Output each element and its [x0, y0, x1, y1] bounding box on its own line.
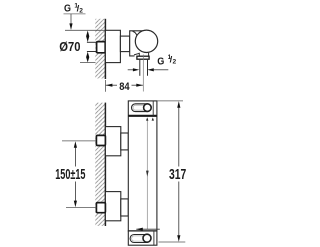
150 dim line lower seg	[74, 182, 76, 205]
bottom cap inner vertical line	[153, 231, 155, 245]
O70 dim double-arrow lower	[86, 52, 89, 63]
upper union nut	[96, 135, 105, 145]
knob circle (top view)	[135, 30, 157, 52]
union nut (top view)	[97, 42, 106, 53]
dim ext line bottom (O70)	[80, 62, 96, 64]
dim ext line top (O70)	[65, 29, 105, 31]
bottom pill inner line	[132, 236, 145, 241]
wall hatching (top view)	[95, 19, 105, 79]
G1/2 callout left tail	[128, 69, 134, 71]
wall hatching (lower view)	[95, 103, 105, 226]
internal arrow tick right	[152, 118, 154, 121]
150 dim bottom ext line	[66, 207, 96, 209]
150 dim arrow down	[74, 201, 77, 208]
317 arrow up	[177, 101, 180, 108]
leader line from G1/2 down	[70, 14, 72, 25]
svg-text:2: 2	[79, 7, 83, 14]
bottom cap top line	[128, 230, 157, 232]
body cone bottom edge	[134, 53, 139, 55]
84 dim line left seg	[106, 84, 117, 86]
connection cylinder (top view)	[120, 36, 129, 52]
underline of G1/2 label	[64, 13, 86, 15]
top pill inner line	[133, 105, 146, 110]
svg-text:317: 317	[169, 166, 186, 183]
outlet neck below circle	[139, 53, 148, 57]
G1/2 left arrow	[133, 68, 139, 71]
84 dim line right seg	[132, 84, 143, 86]
outlet centerline	[142, 55, 144, 92]
outlet nut	[137, 56, 149, 59]
84 dim right arrow	[136, 84, 143, 87]
cap inner vertical line	[152, 101, 154, 117]
O70 dim double-arrow upper (up tip + down tip bowtie)	[86, 31, 89, 43]
317 dim top ext line	[157, 100, 183, 102]
outlet pipe	[139, 60, 141, 76]
317 dim bottom ext line	[159, 241, 186, 243]
150 dim line upper seg	[74, 144, 76, 167]
317 arrow down	[177, 235, 180, 242]
internal mid mark	[146, 171, 149, 177]
150 dim top ext line	[62, 140, 96, 142]
body cone top fillet	[133, 31, 139, 40]
hose outlet arrow line above bottom cap	[136, 228, 160, 230]
wall face line (lower view)	[104, 103, 106, 226]
lower cylinder	[121, 199, 129, 216]
internal centerline	[146, 118, 148, 230]
hose outlet arrow	[136, 228, 143, 231]
top pill (temp handle side view)	[132, 104, 151, 112]
valve body (top view)	[130, 31, 146, 56]
bottom pill	[130, 235, 150, 243]
svg-text:G: G	[64, 4, 71, 15]
bottom pill circle	[143, 234, 151, 242]
internal arrow tick left	[146, 118, 148, 121]
bottom cap box	[128, 231, 157, 245]
lower union nut	[96, 203, 105, 213]
svg-text:G: G	[157, 56, 164, 67]
G1/2 callout right tail	[153, 69, 168, 71]
84 dim: wall ext line	[104, 80, 106, 92]
84 dim left arrow	[106, 84, 113, 87]
upper cylinder	[121, 133, 129, 150]
escutcheon flange (top view)	[105, 30, 120, 62]
cap bottom line	[128, 115, 157, 117]
lower escutcheon (lower view)	[105, 192, 120, 221]
top pill circle	[144, 104, 152, 112]
supply pipe stub in wall	[87, 41, 98, 43]
svg-text:150±15: 150±15	[55, 167, 85, 183]
svg-text:Ø70: Ø70	[59, 40, 80, 54]
upper escutcheon (lower view)	[105, 127, 120, 156]
body column (lower view)	[128, 101, 157, 231]
wall face line (top view)	[104, 19, 106, 79]
317 dim line upper seg	[178, 104, 180, 167]
150 dim arrow up	[74, 141, 77, 148]
317 dim line lower seg	[178, 182, 180, 240]
leader arrow down	[69, 23, 72, 30]
svg-text:84: 84	[119, 81, 130, 93]
svg-text:2: 2	[173, 59, 177, 66]
G1/2 right arrow	[147, 68, 153, 71]
